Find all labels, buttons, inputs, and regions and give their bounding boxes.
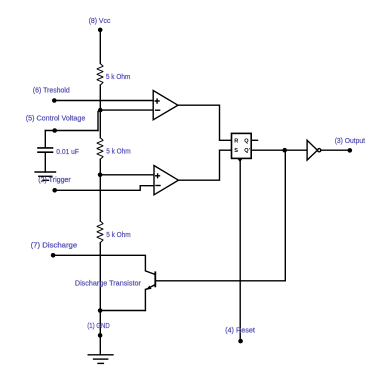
svg-text:S: S — [234, 148, 238, 154]
svg-text:5 k Ohm: 5 k Ohm — [106, 230, 131, 239]
svg-text:5 k Ohm: 5 k Ohm — [106, 72, 130, 81]
svg-text:(1) GND: (1) GND — [87, 321, 110, 330]
svg-text:(7) Discharge: (7) Discharge — [31, 241, 78, 250]
svg-text:Discharge Transistor: Discharge Transistor — [75, 278, 141, 287]
svg-text:(2) Trigger: (2) Trigger — [38, 175, 71, 184]
svg-text:Q’: Q’ — [244, 148, 250, 154]
svg-text:(4) Reset: (4) Reset — [225, 326, 256, 335]
svg-text:(6) Treshold: (6) Treshold — [33, 86, 70, 95]
svg-text:(5) Control Voltage: (5) Control Voltage — [26, 114, 86, 123]
svg-text:Q: Q — [244, 138, 249, 144]
svg-text:5 k Ohm: 5 k Ohm — [106, 146, 131, 155]
svg-text:(3) Output: (3) Output — [335, 136, 366, 145]
svg-text:0.01 uF: 0.01 uF — [56, 147, 79, 156]
svg-text:(8) Vcc: (8) Vcc — [89, 16, 111, 25]
svg-text:R: R — [234, 138, 238, 144]
